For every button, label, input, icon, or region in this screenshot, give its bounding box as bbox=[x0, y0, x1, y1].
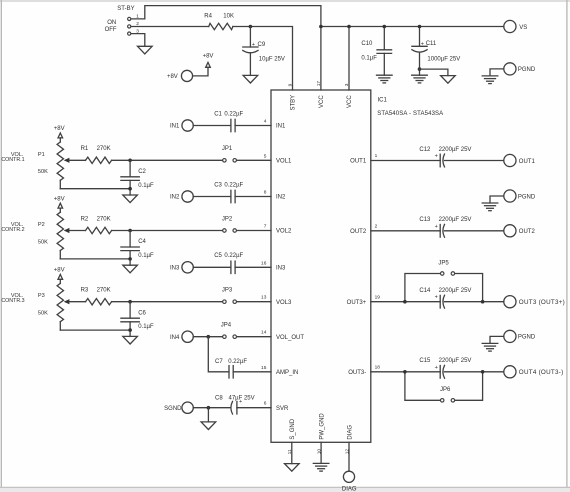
svg-text:+8V: +8V bbox=[54, 268, 65, 274]
capacitor C8 47uF 25V bbox=[215, 395, 255, 414]
wire ST-BY pin3 to ground bbox=[131, 34, 145, 47]
junction bbox=[403, 370, 407, 374]
connector IN1 bbox=[170, 120, 193, 131]
potentiometer P3 50K bbox=[1, 283, 69, 330]
connector SGND bbox=[164, 402, 193, 413]
supply +8V arrow P3 bbox=[54, 268, 65, 284]
junction bbox=[249, 25, 253, 29]
svg-text:+: + bbox=[435, 224, 438, 230]
junction bbox=[403, 300, 407, 304]
svg-text:PGND: PGND bbox=[518, 67, 536, 73]
wire bbox=[193, 125, 231, 127]
junction bbox=[319, 25, 323, 29]
wire cap to connector bbox=[445, 371, 504, 373]
connector DIAG bbox=[342, 471, 357, 492]
svg-text:C9: C9 bbox=[258, 42, 266, 48]
capacitor C15 2200uF 25V bbox=[419, 358, 471, 378]
wire pot bottom to C ground bbox=[60, 258, 130, 260]
junction bbox=[418, 67, 422, 71]
svg-text:DIAG: DIAG bbox=[347, 425, 353, 440]
svg-text:270K: 270K bbox=[97, 216, 111, 222]
svg-text:JP6: JP6 bbox=[440, 387, 451, 393]
svg-text:C7: C7 bbox=[215, 359, 223, 365]
svg-text:P2: P2 bbox=[38, 222, 45, 228]
wire jumper to IC bbox=[237, 301, 271, 303]
svg-text:+: + bbox=[239, 399, 242, 405]
svg-text:CONTR.3: CONTR.3 bbox=[1, 298, 24, 304]
wire bbox=[235, 125, 271, 127]
svg-text:C15: C15 bbox=[419, 358, 431, 364]
connector OUT4 (OUT3-) bbox=[504, 366, 564, 378]
resistor R3 270K bbox=[81, 288, 112, 305]
svg-text:IN1: IN1 bbox=[170, 124, 180, 130]
capacitor C3 0.22uF bbox=[214, 182, 243, 202]
ground bbox=[441, 76, 456, 84]
wire C8 to SVR pin 6 bbox=[237, 407, 271, 409]
capacitor C2 0.1uF bbox=[121, 160, 154, 195]
svg-text:19: 19 bbox=[375, 294, 381, 300]
svg-text:ST-BY: ST-BY bbox=[117, 6, 134, 12]
svg-text:SGND: SGND bbox=[164, 406, 182, 412]
svg-text:C2: C2 bbox=[138, 169, 146, 175]
ground bbox=[123, 336, 138, 344]
svg-text:3: 3 bbox=[344, 83, 350, 86]
junction bbox=[128, 159, 132, 163]
wire R to jumper bbox=[112, 301, 223, 303]
jumper JP5 bbox=[405, 260, 483, 301]
svg-text:R2: R2 bbox=[81, 216, 89, 222]
svg-text:C13: C13 bbox=[419, 217, 431, 223]
wire bbox=[193, 266, 231, 268]
ground bbox=[412, 74, 428, 76]
junction bbox=[207, 335, 211, 339]
svg-text:+8V: +8V bbox=[167, 74, 178, 80]
connector VS bbox=[504, 20, 527, 32]
junction bbox=[418, 25, 422, 29]
wire wiper to R bbox=[69, 230, 86, 232]
svg-text:PGND: PGND bbox=[518, 194, 536, 200]
supply +8V arrow P1 bbox=[54, 126, 65, 142]
resistor R4 10K bbox=[204, 14, 234, 30]
capacitor C12 2200uF 25V bbox=[419, 147, 471, 167]
svg-text:2200µF 25V: 2200µF 25V bbox=[439, 288, 472, 294]
wire C7 to AMP_IN pin 15 bbox=[233, 371, 271, 373]
wire R to jumper bbox=[112, 159, 223, 161]
svg-text:IN1: IN1 bbox=[276, 124, 286, 130]
connector OUT3 (OUT3+) bbox=[504, 296, 565, 308]
wire cap to connector bbox=[445, 160, 504, 162]
ground bbox=[285, 464, 300, 472]
svg-text:IN2: IN2 bbox=[276, 195, 286, 201]
wire R to jumper bbox=[112, 230, 223, 232]
connector IN2 bbox=[170, 191, 193, 202]
wire cap to connector bbox=[445, 230, 504, 232]
svg-text:JP3: JP3 bbox=[222, 288, 233, 294]
svg-text:4: 4 bbox=[264, 119, 267, 125]
svg-text:OFF: OFF bbox=[105, 27, 117, 33]
wire IC to C14 bbox=[371, 301, 440, 303]
svg-text:C8: C8 bbox=[215, 395, 223, 401]
capacitor C7 0.22uF bbox=[215, 359, 247, 378]
svg-text:IN3: IN3 bbox=[170, 266, 180, 272]
jumper JP1 bbox=[222, 146, 237, 162]
svg-text:7: 7 bbox=[264, 224, 267, 230]
svg-text:50K: 50K bbox=[38, 169, 48, 175]
wire jumper to IC bbox=[237, 230, 271, 232]
svg-text:OUT3-: OUT3- bbox=[348, 370, 366, 376]
svg-text:14: 14 bbox=[261, 330, 267, 336]
svg-text:R3: R3 bbox=[81, 288, 89, 294]
svg-text:C12: C12 bbox=[419, 147, 431, 153]
capacitor C5 0.22uF bbox=[214, 253, 243, 273]
svg-text:JP1: JP1 bbox=[222, 146, 233, 152]
svg-text:OUT4 (OUT3-): OUT4 (OUT3-) bbox=[519, 369, 564, 376]
wire to ground bbox=[207, 408, 209, 422]
wire jumper to IC bbox=[237, 159, 271, 161]
svg-text:CONTR.1: CONTR.1 bbox=[1, 157, 24, 163]
jumper JP2 bbox=[222, 216, 237, 232]
wire DIAG pin 12 bbox=[348, 442, 350, 471]
svg-text:0.22µF: 0.22µF bbox=[228, 359, 247, 365]
svg-text:C1: C1 bbox=[214, 111, 222, 117]
capacitor C13 2200uF 25V bbox=[419, 217, 471, 237]
svg-text:17: 17 bbox=[316, 81, 322, 87]
svg-text:CONTR.2: CONTR.2 bbox=[1, 227, 24, 233]
svg-text:STA540SA - STA543SA: STA540SA - STA543SA bbox=[377, 111, 443, 117]
wire cap to connector bbox=[445, 301, 504, 303]
svg-text:C10: C10 bbox=[361, 41, 373, 47]
svg-text:JP2: JP2 bbox=[222, 216, 233, 222]
svg-text:1: 1 bbox=[375, 153, 378, 159]
connector PGND bbox=[490, 330, 536, 343]
junction bbox=[383, 25, 387, 29]
svg-text:10: 10 bbox=[317, 449, 323, 455]
svg-text:0.1µF: 0.1µF bbox=[361, 56, 377, 62]
junction bbox=[128, 257, 132, 261]
svg-text:12: 12 bbox=[344, 449, 350, 455]
jumper JP6 bbox=[405, 372, 483, 402]
svg-text:VOL1: VOL1 bbox=[276, 158, 292, 164]
wire pot bottom to C ground bbox=[60, 329, 130, 331]
svg-text:50K: 50K bbox=[38, 239, 48, 245]
potentiometer P1 50K bbox=[1, 142, 69, 189]
resistor R2 270K bbox=[81, 216, 112, 233]
wire rail to VCC pin 17 bbox=[320, 27, 322, 91]
jumper JP3 bbox=[222, 288, 237, 304]
connector OUT2 bbox=[504, 225, 536, 237]
svg-text:0.22µF: 0.22µF bbox=[224, 111, 243, 117]
ground bbox=[201, 422, 216, 430]
svg-text:8: 8 bbox=[264, 190, 267, 196]
svg-text:0.1µF: 0.1µF bbox=[138, 324, 154, 330]
wire rail to VCC pin 3 bbox=[348, 27, 350, 91]
svg-text:IN2: IN2 bbox=[170, 195, 180, 201]
svg-text:OUT1: OUT1 bbox=[519, 159, 536, 165]
svg-text:VCC: VCC bbox=[347, 95, 353, 108]
capacitor C14 2200uF 25V bbox=[419, 288, 471, 308]
wire ST-BY pin1 to VS rail bbox=[131, 6, 321, 27]
connector OUT1 bbox=[504, 154, 536, 166]
capacitor C6 0.1uF bbox=[121, 302, 154, 337]
svg-text:ON: ON bbox=[107, 20, 116, 26]
svg-text:+: + bbox=[435, 295, 438, 301]
wire IC to C13 bbox=[371, 230, 440, 232]
wire wiper to R bbox=[69, 301, 86, 303]
wire to second ground bbox=[420, 69, 448, 76]
svg-text:0.22µF: 0.22µF bbox=[224, 182, 243, 188]
svg-text:+: + bbox=[435, 154, 438, 160]
svg-text:9: 9 bbox=[288, 83, 294, 86]
svg-text:270K: 270K bbox=[97, 288, 111, 294]
svg-text:IN3: IN3 bbox=[276, 265, 286, 271]
ground bbox=[123, 195, 138, 203]
svg-text:C11: C11 bbox=[426, 41, 437, 47]
svg-text:P1: P1 bbox=[38, 152, 45, 158]
capacitor C4 0.1uF bbox=[121, 231, 154, 266]
connector IN4 bbox=[170, 331, 193, 342]
svg-text:JP4: JP4 bbox=[221, 323, 232, 329]
svg-text:15: 15 bbox=[261, 365, 267, 371]
svg-text:+8V: +8V bbox=[54, 126, 65, 132]
wire bbox=[235, 266, 271, 268]
wire PW_GND pin 10 bbox=[320, 442, 322, 463]
svg-text:VOL2: VOL2 bbox=[276, 229, 292, 235]
svg-text:S_GND: S_GND bbox=[290, 418, 296, 439]
svg-text:16: 16 bbox=[261, 260, 267, 266]
wire pot bottom to C ground bbox=[60, 188, 130, 190]
svg-text:+: + bbox=[252, 42, 255, 48]
svg-text:VCC: VCC bbox=[319, 95, 325, 108]
ground bbox=[482, 342, 498, 344]
wire SGND to C8 bbox=[193, 407, 230, 409]
svg-text:+8V: +8V bbox=[54, 196, 65, 202]
svg-text:0.1µF: 0.1µF bbox=[138, 183, 154, 189]
svg-text:PW_GND: PW_GND bbox=[319, 413, 325, 440]
svg-text:C5: C5 bbox=[214, 253, 222, 259]
wire bbox=[193, 196, 231, 198]
capacitor C1 0.22uF bbox=[214, 111, 243, 131]
svg-text:R1: R1 bbox=[81, 146, 89, 152]
svg-text:OUT3 (OUT3+): OUT3 (OUT3+) bbox=[519, 299, 565, 306]
svg-text:OUT2: OUT2 bbox=[350, 229, 367, 235]
svg-text:C14: C14 bbox=[419, 288, 431, 294]
wire +8V to arrow bbox=[193, 67, 208, 76]
wire bbox=[235, 196, 271, 198]
svg-text:R4: R4 bbox=[204, 14, 212, 20]
connector IN3 bbox=[170, 262, 193, 273]
capacitor C10 0.1uF bbox=[361, 27, 391, 76]
jumper JP4 bbox=[221, 323, 237, 339]
capacitor C9 10uF 25V bbox=[243, 27, 285, 76]
svg-text:2: 2 bbox=[375, 223, 378, 229]
svg-text:C4: C4 bbox=[138, 239, 146, 245]
svg-text:13: 13 bbox=[261, 295, 267, 301]
svg-text:+: + bbox=[421, 41, 424, 47]
svg-text:10µF 25V: 10µF 25V bbox=[259, 56, 285, 62]
svg-text:VS: VS bbox=[519, 25, 527, 31]
wire IN4 to JP4 bbox=[193, 336, 222, 338]
junction bbox=[128, 300, 132, 304]
junction bbox=[128, 328, 132, 332]
wire IC to C12 bbox=[371, 160, 440, 162]
svg-text:OUT3+: OUT3+ bbox=[347, 300, 367, 306]
svg-text:AMP_IN: AMP_IN bbox=[276, 370, 298, 376]
resistor R1 270K bbox=[81, 146, 112, 163]
svg-text:C3: C3 bbox=[214, 182, 222, 188]
junction bbox=[128, 229, 132, 233]
connector PGND top bbox=[490, 63, 536, 76]
svg-text:0.22µF: 0.22µF bbox=[224, 253, 243, 259]
svg-text:OUT2: OUT2 bbox=[519, 229, 536, 235]
svg-text:2200µF 25V: 2200µF 25V bbox=[439, 217, 472, 223]
junction bbox=[347, 25, 351, 29]
ground bbox=[482, 75, 498, 77]
capacitor C11 1000uF 25V bbox=[412, 27, 460, 76]
svg-text:JP5: JP5 bbox=[438, 260, 449, 266]
junction bbox=[481, 300, 485, 304]
ground bbox=[123, 265, 138, 273]
supply +8V arrow P2 bbox=[54, 196, 65, 212]
svg-text:STBY: STBY bbox=[291, 95, 297, 111]
svg-text:VOL_OUT: VOL_OUT bbox=[276, 335, 304, 341]
potentiometer P2 50K bbox=[1, 212, 69, 259]
wire R4 to STBY pin 9 bbox=[233, 27, 293, 91]
svg-text:+: + bbox=[435, 365, 438, 371]
svg-text:DIAG: DIAG bbox=[342, 486, 357, 492]
ground bbox=[313, 462, 329, 464]
svg-text:11: 11 bbox=[287, 449, 293, 454]
junction bbox=[128, 187, 132, 191]
ground bbox=[482, 202, 498, 204]
connector +8V input bbox=[167, 70, 193, 81]
wire IN4 branch down to C7 bbox=[208, 337, 229, 372]
svg-text:2200µF 25V: 2200µF 25V bbox=[439, 147, 472, 153]
wire IC to C15 bbox=[371, 371, 440, 373]
wire S_GND pin 11 bbox=[291, 442, 293, 463]
svg-text:10K: 10K bbox=[223, 14, 234, 20]
wire JP4 to VOL_OUT pin 14 bbox=[237, 336, 271, 338]
wire ST-BY pin2 to R4 bbox=[131, 26, 209, 28]
connector SW1 ST-BY bbox=[105, 6, 140, 35]
wire wiper to R bbox=[69, 159, 86, 161]
wire VS rail bbox=[321, 26, 504, 28]
IC1 STA540SA - STA543SA bbox=[271, 90, 443, 442]
connector PGND bbox=[490, 190, 536, 203]
svg-text:PGND: PGND bbox=[518, 335, 536, 341]
svg-text:IC1: IC1 bbox=[378, 98, 388, 104]
svg-text:P3: P3 bbox=[38, 293, 45, 299]
supply +8V arrow bbox=[203, 54, 214, 68]
junction bbox=[207, 406, 211, 410]
svg-text:VOL3: VOL3 bbox=[276, 300, 292, 306]
svg-text:2200µF 25V: 2200µF 25V bbox=[439, 358, 472, 364]
ground bbox=[377, 74, 393, 76]
svg-text:18: 18 bbox=[375, 364, 381, 370]
svg-text:270K: 270K bbox=[97, 146, 111, 152]
ground bbox=[243, 75, 258, 83]
svg-text:5: 5 bbox=[264, 153, 267, 159]
svg-text:6: 6 bbox=[264, 401, 267, 407]
svg-text:50K: 50K bbox=[38, 311, 48, 317]
svg-text:C6: C6 bbox=[138, 310, 146, 316]
svg-text:IN4: IN4 bbox=[170, 335, 180, 341]
svg-text:OUT1: OUT1 bbox=[350, 158, 367, 164]
svg-text:1000µF 25V: 1000µF 25V bbox=[427, 57, 460, 63]
svg-text:+8V: +8V bbox=[203, 54, 214, 60]
svg-text:0.1µF: 0.1µF bbox=[138, 253, 154, 259]
ground bbox=[138, 46, 153, 54]
svg-text:SVR: SVR bbox=[276, 406, 289, 412]
junction bbox=[481, 370, 485, 374]
